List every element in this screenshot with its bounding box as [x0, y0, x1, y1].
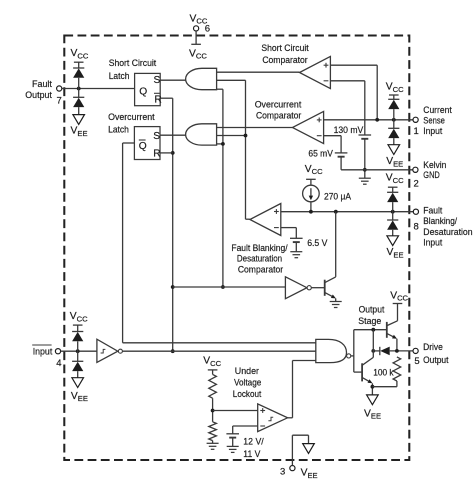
svg-text:1: 1	[414, 126, 419, 137]
svg-text:GND: GND	[423, 170, 440, 181]
svg-text:6.5 V: 6.5 V	[307, 238, 328, 249]
svg-text:Fault: Fault	[423, 205, 442, 216]
svg-text:11 V: 11 V	[243, 449, 261, 460]
svg-text:Output: Output	[359, 304, 385, 315]
svg-text:130 mV: 130 mV	[334, 125, 364, 136]
svg-text:Under: Under	[235, 366, 259, 377]
svg-text:Short Circuit: Short Circuit	[109, 58, 157, 69]
svg-text:Stage: Stage	[358, 316, 381, 327]
svg-text:5: 5	[414, 356, 419, 367]
svg-text:Overcurrent: Overcurrent	[108, 112, 155, 123]
svg-text:Fault Blanking/: Fault Blanking/	[231, 243, 288, 254]
svg-text:Lockout: Lockout	[233, 389, 262, 400]
svg-text:Drive: Drive	[423, 342, 443, 353]
svg-text:Desaturation: Desaturation	[423, 227, 472, 238]
svg-text:100 k: 100 k	[373, 367, 394, 378]
svg-text:R: R	[153, 149, 160, 160]
svg-text:2: 2	[414, 178, 419, 189]
svg-text:Comparator: Comparator	[256, 111, 301, 122]
svg-text:Comparator: Comparator	[238, 264, 283, 275]
svg-text:Input: Input	[33, 347, 53, 358]
svg-text:S: S	[154, 75, 161, 86]
svg-text:12 V/: 12 V/	[243, 437, 264, 448]
svg-text:270 μA: 270 μA	[324, 191, 352, 202]
svg-text:Sense: Sense	[423, 115, 445, 126]
svg-text:Output: Output	[423, 355, 449, 366]
svg-text:Input: Input	[423, 237, 442, 248]
svg-text:R: R	[154, 94, 161, 105]
svg-text:7: 7	[57, 96, 62, 107]
svg-text:Short Circuit: Short Circuit	[261, 43, 309, 54]
svg-text:8: 8	[414, 221, 419, 232]
svg-text:6: 6	[205, 24, 210, 35]
svg-text:Fault: Fault	[32, 79, 52, 90]
svg-text:S: S	[153, 131, 160, 142]
svg-text:Latch: Latch	[109, 71, 130, 82]
svg-text:Q: Q	[139, 86, 147, 97]
svg-text:Input: Input	[423, 126, 442, 137]
svg-text:65 mV: 65 mV	[308, 149, 333, 160]
svg-text:Comparator: Comparator	[262, 55, 307, 66]
svg-text:Q: Q	[139, 141, 147, 152]
svg-text:3: 3	[280, 466, 285, 477]
svg-text:Latch: Latch	[108, 125, 129, 136]
svg-text:Overcurrent: Overcurrent	[255, 100, 302, 111]
svg-text:Blanking/: Blanking/	[423, 216, 457, 227]
svg-text:Output: Output	[25, 90, 52, 101]
svg-text:Voltage: Voltage	[234, 378, 261, 389]
svg-text:4: 4	[56, 358, 61, 369]
svg-text:Desaturation: Desaturation	[237, 253, 282, 264]
